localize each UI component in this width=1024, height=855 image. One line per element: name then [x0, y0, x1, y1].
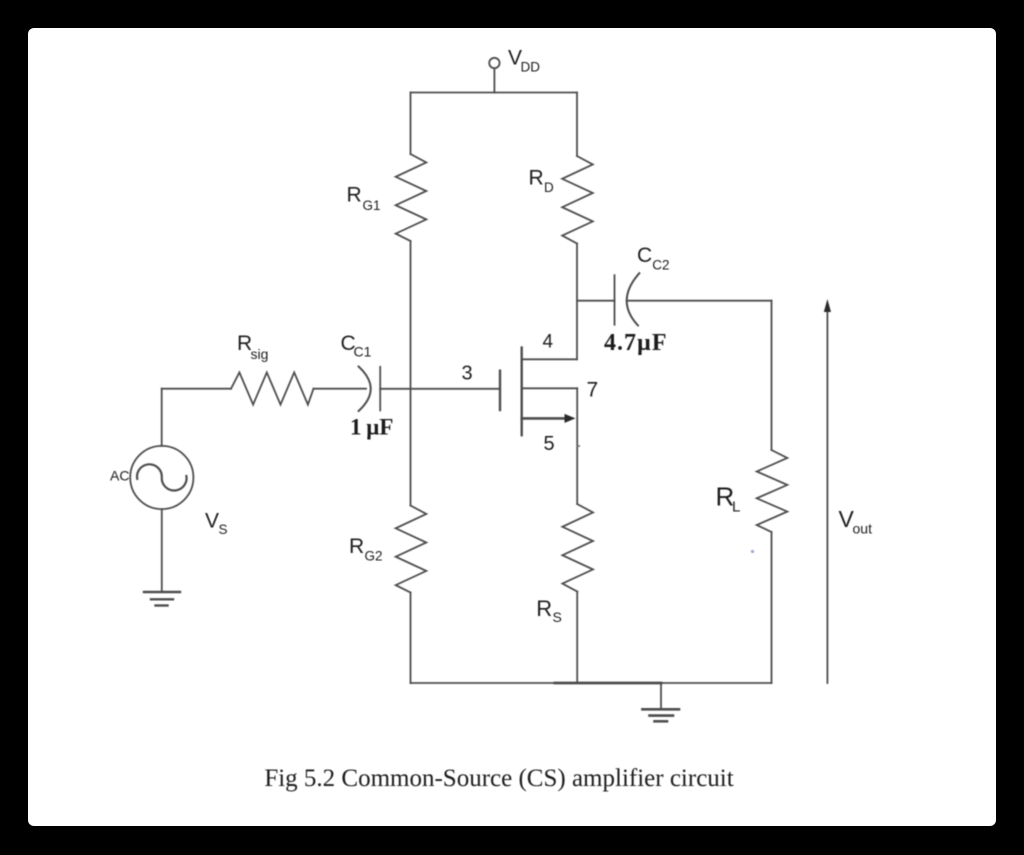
svg-text:S: S [553, 609, 562, 625]
svg-text:D: D [544, 180, 554, 195]
svg-text:G1: G1 [363, 198, 381, 213]
svg-text:4.7µF: 4.7µF [604, 330, 668, 356]
svg-text:out: out [853, 521, 873, 537]
svg-text:1 µF: 1 µF [350, 415, 393, 440]
svg-text:V: V [205, 510, 219, 533]
svg-text:R: R [347, 184, 362, 207]
svg-text:5: 5 [544, 433, 555, 455]
svg-text:sig: sig [251, 346, 269, 362]
svg-text:C1: C1 [354, 344, 372, 360]
svg-text:AC: AC [110, 468, 129, 484]
svg-text:L: L [732, 499, 740, 516]
svg-text:G2: G2 [365, 549, 383, 564]
svg-text:R: R [529, 167, 544, 190]
svg-text:7: 7 [587, 379, 599, 402]
svg-text:R: R [349, 535, 364, 558]
svg-text:Fig 5.2 Common-Source (CS) amp: Fig 5.2 Common-Source (CS) amplifier cir… [264, 765, 733, 792]
svg-text:R: R [536, 596, 552, 621]
svg-text:3: 3 [462, 363, 473, 385]
svg-text:C: C [637, 244, 652, 267]
svg-text:S: S [219, 522, 228, 537]
svg-text:4: 4 [543, 332, 554, 353]
svg-text:C2: C2 [652, 258, 669, 273]
svg-text:DD: DD [521, 60, 541, 75]
